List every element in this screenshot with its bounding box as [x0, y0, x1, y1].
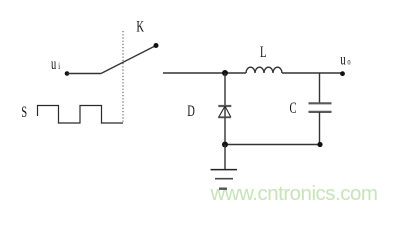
wire: left contact to switch pivot [67, 73, 101, 75]
svg-text:www.cntronics.com: www.cntronics.com [210, 182, 378, 205]
ground bar 1 [211, 169, 238, 171]
ground bar 2 [215, 178, 233, 180]
svg-text:L: L [260, 43, 266, 61]
diode D vertical wire [224, 73, 226, 145]
svg-text:D: D [187, 102, 195, 120]
svg-text:i: i [58, 61, 60, 72]
svg-text:u: u [51, 55, 57, 73]
svg-text:C: C [290, 99, 297, 117]
node: switch moving contact [154, 43, 159, 48]
ground bar 3 [219, 187, 227, 189]
node: diode top junction [222, 70, 228, 76]
switch K blade (diagonal) [101, 46, 156, 74]
wire: inductor to output [282, 72, 343, 74]
svg-text:K: K [136, 18, 144, 36]
node: capacitor bottom junction [317, 142, 322, 147]
ground lead [224, 145, 226, 170]
wire: switch output to diode node [163, 72, 246, 74]
diode D triangle base [218, 116, 231, 118]
diode D cathode bar [218, 105, 231, 107]
capacitor C bottom lead [319, 112, 321, 145]
svg-text:u: u [340, 50, 346, 68]
svg-text:o: o [347, 56, 350, 67]
dotted control line from switch to S waveform [122, 31, 124, 123]
diode D triangle sides [219, 106, 231, 117]
capacitor C bottom plate [309, 111, 332, 113]
capacitor C top plate [309, 102, 332, 104]
capacitor C top lead [319, 73, 321, 103]
svg-text:S: S [21, 103, 27, 121]
node: switch left fixed contact [65, 71, 70, 76]
square wave S [38, 106, 124, 124]
bottom return wire [225, 144, 320, 146]
inductor L coils [246, 67, 282, 73]
node: diode bottom junction [222, 142, 228, 148]
node: output terminal [340, 71, 345, 76]
